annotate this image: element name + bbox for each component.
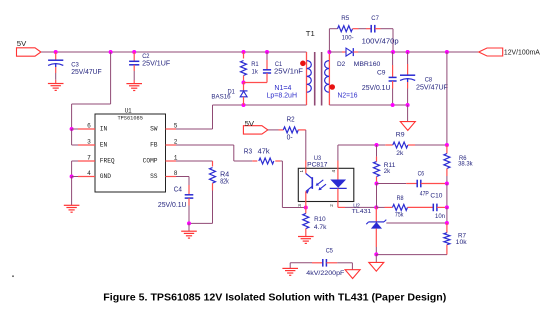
svg-text:8: 8 bbox=[174, 170, 178, 177]
svg-text:10k: 10k bbox=[456, 239, 468, 246]
svg-text:TPS61085: TPS61085 bbox=[117, 115, 143, 122]
svg-text:MBR160: MBR160 bbox=[354, 61, 381, 68]
svg-text:SW: SW bbox=[150, 125, 158, 132]
svg-text:25V/0.1U: 25V/0.1U bbox=[362, 85, 391, 92]
svg-text:25V/47UF: 25V/47UF bbox=[416, 85, 448, 92]
svg-text:6: 6 bbox=[87, 122, 91, 129]
svg-text:1: 1 bbox=[299, 169, 304, 172]
svg-text:C7: C7 bbox=[371, 15, 379, 22]
svg-text:R4: R4 bbox=[220, 171, 229, 178]
svg-text:U1: U1 bbox=[125, 107, 132, 114]
svg-text:100V/470p: 100V/470p bbox=[362, 36, 399, 45]
svg-text:10n: 10n bbox=[435, 213, 446, 220]
svg-text:R9: R9 bbox=[396, 133, 406, 139]
svg-text:FREQ: FREQ bbox=[100, 157, 115, 164]
svg-text:1k: 1k bbox=[252, 69, 259, 76]
svg-text:C3: C3 bbox=[71, 62, 79, 69]
svg-text:2k: 2k bbox=[396, 151, 404, 157]
svg-text:47P: 47P bbox=[420, 190, 429, 197]
svg-text:25V/1nF: 25V/1nF bbox=[274, 68, 303, 75]
svg-text:4kV/2200pF: 4kV/2200pF bbox=[306, 270, 344, 277]
svg-text:2: 2 bbox=[329, 204, 334, 207]
svg-text:R3: R3 bbox=[244, 148, 252, 155]
svg-text:GND: GND bbox=[100, 173, 111, 180]
svg-text:EN: EN bbox=[100, 141, 108, 148]
svg-text:IN: IN bbox=[100, 125, 108, 132]
svg-text:C10: C10 bbox=[430, 193, 443, 200]
svg-text:4.7k: 4.7k bbox=[314, 224, 327, 231]
svg-text:2: 2 bbox=[174, 138, 178, 145]
svg-text:TL431: TL431 bbox=[352, 209, 372, 215]
svg-text:C5: C5 bbox=[326, 248, 334, 255]
svg-text:47k: 47k bbox=[258, 148, 271, 155]
svg-text:R2: R2 bbox=[287, 116, 295, 123]
svg-text:5V: 5V bbox=[17, 39, 27, 48]
svg-text:C4: C4 bbox=[174, 187, 182, 194]
svg-text:Lp=8.2uH: Lp=8.2uH bbox=[267, 93, 298, 100]
svg-text:25V/1UF: 25V/1UF bbox=[142, 60, 170, 67]
svg-text:C8: C8 bbox=[425, 77, 433, 84]
svg-text:C1: C1 bbox=[275, 61, 283, 68]
svg-text:1: 1 bbox=[174, 154, 178, 161]
svg-text:25V/47UF: 25V/47UF bbox=[71, 69, 102, 76]
svg-text:T1: T1 bbox=[306, 29, 315, 38]
svg-text:4: 4 bbox=[87, 170, 91, 177]
svg-text:D2: D2 bbox=[337, 61, 345, 68]
svg-text:C6: C6 bbox=[418, 171, 425, 178]
svg-text:C2: C2 bbox=[142, 53, 150, 60]
svg-text:4: 4 bbox=[331, 169, 336, 172]
svg-text:75k: 75k bbox=[395, 212, 404, 219]
svg-text:BAS16: BAS16 bbox=[211, 94, 231, 101]
svg-text:N1=4: N1=4 bbox=[274, 85, 291, 92]
svg-text:R1: R1 bbox=[251, 61, 259, 68]
svg-text:R5: R5 bbox=[341, 15, 349, 22]
svg-text:5V: 5V bbox=[245, 119, 255, 128]
svg-text:3: 3 bbox=[297, 204, 302, 207]
svg-text:R10: R10 bbox=[314, 216, 326, 223]
svg-text:PC817: PC817 bbox=[307, 161, 328, 168]
svg-text:100-: 100- bbox=[342, 35, 354, 42]
svg-text:Figure 5. TPS61085 12V Isolate: Figure 5. TPS61085 12V Isolated Solution… bbox=[103, 293, 446, 304]
svg-text:0-: 0- bbox=[287, 135, 294, 142]
svg-text:7: 7 bbox=[87, 154, 91, 161]
svg-text:5: 5 bbox=[174, 122, 178, 129]
svg-text:38.3k: 38.3k bbox=[458, 160, 473, 167]
svg-text:25V/0.1U: 25V/0.1U bbox=[158, 202, 187, 209]
svg-text:N2=16: N2=16 bbox=[338, 92, 358, 99]
svg-text:82k: 82k bbox=[220, 179, 229, 186]
svg-text:12V/100mA: 12V/100mA bbox=[504, 47, 540, 56]
svg-text:C9: C9 bbox=[377, 69, 386, 76]
svg-text:3: 3 bbox=[87, 138, 91, 145]
svg-text:FB: FB bbox=[150, 141, 158, 148]
svg-text:2k: 2k bbox=[384, 168, 391, 175]
svg-text:SS: SS bbox=[150, 173, 158, 180]
svg-text:R8: R8 bbox=[397, 195, 404, 202]
svg-text:COMP: COMP bbox=[143, 157, 158, 164]
